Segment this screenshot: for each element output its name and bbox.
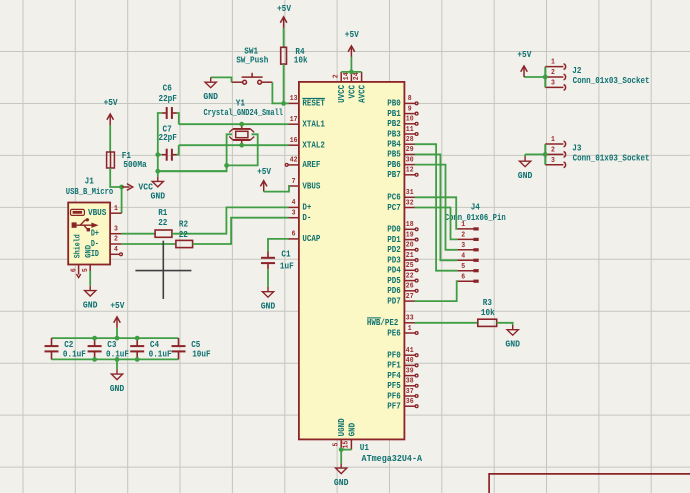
svg-text:PB7: PB7 xyxy=(387,170,401,180)
wire PB6 to J4 pin3 xyxy=(415,165,458,250)
pin 9 PB1 (U1 right) xyxy=(387,105,418,119)
pin 1 (J3) xyxy=(545,136,565,147)
power +5V (above R4) xyxy=(277,4,292,28)
pin 5 (J4) xyxy=(457,263,478,273)
svg-text:PD7: PD7 xyxy=(387,296,401,306)
junction +5V rail xyxy=(115,336,120,341)
svg-text:D+: D+ xyxy=(91,229,99,239)
wire HWB to R3 xyxy=(415,322,478,324)
svg-text:USB_B_Micro: USB_B_Micro xyxy=(66,187,114,197)
svg-text:2: 2 xyxy=(551,147,555,155)
svg-text:+5V: +5V xyxy=(517,50,532,60)
wire R1 to D+ pin xyxy=(172,207,289,233)
pin 14 VCC (U1 top) xyxy=(343,72,357,99)
svg-text:2: 2 xyxy=(551,69,555,77)
svg-text:1: 1 xyxy=(551,136,555,144)
wire +5V to F1 xyxy=(109,125,111,152)
svg-text:0.1uF: 0.1uF xyxy=(63,349,86,359)
ground (R3) xyxy=(505,325,520,350)
svg-text:PC7: PC7 xyxy=(387,203,401,213)
svg-text:PB0: PB0 xyxy=(387,99,401,109)
svg-text:GND: GND xyxy=(83,301,98,311)
svg-text:C5: C5 xyxy=(191,340,200,350)
wire J2 pins common xyxy=(544,67,546,88)
svg-text:GND: GND xyxy=(347,422,357,436)
svg-text:GND: GND xyxy=(84,245,94,258)
svg-text:Conn_01x06_Pin: Conn_01x06_Pin xyxy=(445,213,506,223)
svg-text:3: 3 xyxy=(551,157,555,165)
wire to RESET pin xyxy=(284,102,289,104)
svg-text:10: 10 xyxy=(406,116,414,124)
svg-text:SW_Push: SW_Push xyxy=(236,55,268,65)
svg-text:R3: R3 xyxy=(483,298,492,308)
svg-text:0.1uF: 0.1uF xyxy=(149,349,172,359)
wire GND rail (cap bank) xyxy=(52,358,179,360)
svg-text:17: 17 xyxy=(290,116,298,124)
ground (cap bank) xyxy=(110,369,125,394)
overline HWB xyxy=(367,317,381,319)
pin 40 PF1 (U1 right) xyxy=(387,357,418,371)
svg-text:XTAL1: XTAL1 xyxy=(302,120,325,130)
svg-text:U1: U1 xyxy=(360,443,370,453)
svg-text:1: 1 xyxy=(551,59,555,67)
svg-text:22pF: 22pF xyxy=(158,133,177,143)
pin 20 PD2 (U1 right) xyxy=(387,242,418,256)
pin 19 PD1 (U1 right) xyxy=(387,231,418,245)
svg-text:2: 2 xyxy=(461,232,465,240)
pin 5 UGND (U1 bottom) xyxy=(333,418,348,450)
wire C7 to XTAL2 xyxy=(177,145,179,155)
resistor R1 22 xyxy=(155,208,172,238)
svg-text:PD5: PD5 xyxy=(387,276,401,286)
junction GND run xyxy=(155,169,160,174)
junction Y1 top / XTAL1 xyxy=(239,122,244,127)
wire Y1 shield loop xyxy=(227,134,258,165)
pin 4 (J4) xyxy=(457,252,478,262)
svg-text:39: 39 xyxy=(406,367,414,375)
wire rail to GND xyxy=(116,359,118,369)
usb trident icon xyxy=(72,218,99,231)
graphic cross lines xyxy=(135,241,191,299)
wire R2 to D- pin xyxy=(193,218,289,244)
pin 3 (J4) xyxy=(457,242,478,252)
power VCC (arrow right) xyxy=(122,182,154,192)
wire across U1 power pins xyxy=(341,71,361,73)
ground (U1) xyxy=(334,463,349,488)
ground (J3) xyxy=(518,156,533,181)
svg-text:22pF: 22pF xyxy=(158,94,177,104)
svg-text:5: 5 xyxy=(333,442,341,446)
sheet border corner xyxy=(489,474,690,493)
wire GND to J3 xyxy=(525,153,545,155)
svg-text:PF7: PF7 xyxy=(387,402,401,412)
svg-text:25: 25 xyxy=(406,262,414,270)
svg-text:PB5: PB5 xyxy=(387,150,401,160)
svg-text:GND: GND xyxy=(203,92,218,102)
svg-text:D+: D+ xyxy=(302,203,311,213)
svg-text:5: 5 xyxy=(82,268,90,272)
wire PB5 to J4 pin4 xyxy=(415,154,458,260)
svg-text:VBUS: VBUS xyxy=(88,208,107,218)
svg-text:PD1: PD1 xyxy=(387,235,401,245)
wire +5V to VBUS pin xyxy=(264,186,289,192)
pin 33 HWB/PE2! (U1 right) xyxy=(367,315,415,329)
svg-text:32: 32 xyxy=(406,199,414,207)
svg-text:PF0: PF0 xyxy=(387,351,401,361)
svg-text:PB6: PB6 xyxy=(387,160,401,170)
svg-text:C2: C2 xyxy=(64,340,73,350)
junction +5V rail xyxy=(135,336,140,341)
capacitor C1 1uF xyxy=(261,250,294,272)
junction U1 power xyxy=(349,70,354,75)
power +5V (cap bank) xyxy=(110,301,125,328)
wire +5V rail (cap bank) xyxy=(52,337,179,339)
resistor R3 10k xyxy=(478,298,497,327)
svg-text:PF5: PF5 xyxy=(387,381,401,391)
junction +5V rail xyxy=(92,336,97,341)
pin 8 PB0 (U1 right) xyxy=(387,95,418,109)
svg-text:AREF: AREF xyxy=(302,160,320,170)
pin 16 XTAL2 (U1 left) xyxy=(288,137,325,151)
wire J1 GND xyxy=(89,271,91,286)
power +5V (above F1) xyxy=(104,98,119,125)
svg-text:D-: D- xyxy=(302,213,311,223)
svg-text:UGND: UGND xyxy=(337,418,347,436)
connector J1 USB_B_Micro body xyxy=(68,203,110,265)
svg-text:HWB/PE2: HWB/PE2 xyxy=(367,318,399,328)
pin 3 (J2) xyxy=(545,80,565,91)
wire UCAP to C1 xyxy=(268,239,289,252)
svg-text:VCC: VCC xyxy=(347,84,357,98)
pin 28 PB4 (U1 right) xyxy=(387,136,415,150)
svg-text:Conn_01x03_Socket: Conn_01x03_Socket xyxy=(573,154,650,164)
pin 27 PD7 (U1 right) xyxy=(387,293,415,307)
pin 13 RESET (U1 left) xyxy=(288,95,325,109)
crystal Y1 Crystal_GND24_Small xyxy=(203,98,283,145)
wire C1 to GND xyxy=(267,269,269,287)
svg-text:R1: R1 xyxy=(158,208,168,218)
svg-text:42: 42 xyxy=(290,157,298,165)
svg-text:2: 2 xyxy=(114,236,118,244)
capacitor C6 22pF xyxy=(158,84,177,119)
svg-text:19: 19 xyxy=(406,231,414,239)
wire GND run to crystal shield xyxy=(158,170,227,172)
svg-text:XTAL2: XTAL2 xyxy=(302,141,325,151)
svg-text:RESET: RESET xyxy=(302,99,325,109)
pin 6 UCAP (U1 left) xyxy=(288,231,321,245)
wire PC6 to J4 pin1 xyxy=(415,197,458,229)
svg-text:38: 38 xyxy=(406,378,414,386)
svg-text:12: 12 xyxy=(406,167,414,175)
svg-text:7: 7 xyxy=(292,178,296,186)
svg-text:GND: GND xyxy=(110,384,125,394)
wire to ground symbol xyxy=(157,171,159,176)
svg-text:PF1: PF1 xyxy=(387,361,401,371)
pin 1 PE6 (U1 right) xyxy=(387,325,418,339)
pin 7 VBUS (U1 left) xyxy=(288,178,321,192)
pin 42 AREF (U1 left) xyxy=(285,157,320,171)
svg-text:6: 6 xyxy=(71,268,79,272)
junction GND rail xyxy=(135,357,140,362)
wire D- to R2 xyxy=(122,243,176,245)
svg-text:UCAP: UCAP xyxy=(302,234,320,244)
wire XTAL2 xyxy=(179,144,289,146)
wire SW1 to RESET net xyxy=(272,82,283,103)
capacitor C7 22pF xyxy=(158,124,177,160)
svg-text:J4: J4 xyxy=(471,203,481,213)
pin 21 PD3 (U1 right) xyxy=(387,252,418,266)
wire +5V to J2 xyxy=(524,76,545,78)
svg-text:1: 1 xyxy=(114,205,118,213)
svg-text:PF6: PF6 xyxy=(387,391,401,401)
pin 39 PF4 (U1 right) xyxy=(387,367,418,381)
svg-text:+5V: +5V xyxy=(110,301,125,311)
pin 3 D- (U1 left) xyxy=(288,210,311,224)
svg-text:10k: 10k xyxy=(481,308,495,318)
svg-text:29: 29 xyxy=(406,146,414,154)
svg-text:+5V: +5V xyxy=(104,98,119,108)
wire shield loop to GND xyxy=(158,165,227,171)
ground (C1) xyxy=(261,287,276,312)
svg-text:15: 15 xyxy=(343,440,351,448)
microcontroller U1 ATmega32U4-A body xyxy=(299,82,405,440)
svg-text:30: 30 xyxy=(406,156,414,164)
svg-text:8: 8 xyxy=(408,95,412,103)
svg-text:GND: GND xyxy=(334,478,349,488)
svg-text:J3: J3 xyxy=(572,143,581,153)
svg-text:PD4: PD4 xyxy=(387,266,401,276)
junction RESET net xyxy=(281,101,286,106)
svg-text:16: 16 xyxy=(290,137,298,145)
junction C7 left xyxy=(155,152,160,157)
wire J3 GND drop xyxy=(524,154,526,156)
svg-text:+5V: +5V xyxy=(277,4,292,14)
pin 1 VBUS (J1) xyxy=(110,205,122,213)
svg-text:+5V: +5V xyxy=(257,167,272,177)
pin 41 PF0 (U1 right) xyxy=(387,347,418,361)
svg-text:1: 1 xyxy=(461,221,465,229)
junction J2 pin2 xyxy=(543,75,548,80)
svg-text:C3: C3 xyxy=(107,340,116,350)
svg-text:6: 6 xyxy=(461,273,465,281)
pin 12 PB7 (U1 right) xyxy=(387,167,418,181)
svg-text:3: 3 xyxy=(114,225,118,233)
svg-text:10k: 10k xyxy=(294,56,308,66)
wire C6/C7 left to GND xyxy=(158,113,162,171)
svg-text:22: 22 xyxy=(158,218,167,228)
pin 6 (J4) xyxy=(457,273,478,283)
svg-text:VBUS: VBUS xyxy=(302,181,320,191)
svg-text:VCC: VCC xyxy=(138,182,153,192)
wire F1 to VCC node xyxy=(110,168,121,187)
svg-text:GND: GND xyxy=(505,340,520,350)
wire +5V to U1 power pins xyxy=(350,57,352,72)
pin 26 PD6 (U1 right) xyxy=(387,283,418,297)
svg-text:PD3: PD3 xyxy=(387,255,401,265)
svg-text:500Ma: 500Ma xyxy=(123,160,147,170)
pin 29 PB5 (U1 right) xyxy=(387,146,415,160)
pin 2 D- (J1) xyxy=(110,236,122,244)
pin 11 PB3 (U1 right) xyxy=(387,126,418,140)
wire PD7 to J4 pin6 xyxy=(415,281,458,301)
power +5V (J2) xyxy=(517,50,532,77)
pin 37 PF6 (U1 right) xyxy=(387,388,418,402)
wire PB4 to J4 pin5 xyxy=(415,144,458,271)
svg-text:22: 22 xyxy=(406,272,414,280)
svg-text:PB3: PB3 xyxy=(387,129,401,139)
wire R4 to RESET net xyxy=(283,64,285,103)
resistor R2 22 xyxy=(176,220,193,248)
wire C6 to XTAL1 xyxy=(177,113,179,124)
svg-text:R2: R2 xyxy=(179,220,188,230)
svg-text:24: 24 xyxy=(353,72,361,80)
svg-text:PB2: PB2 xyxy=(387,119,401,129)
pin 22 PD5 (U1 right) xyxy=(387,272,418,286)
svg-text:GND: GND xyxy=(261,302,276,312)
svg-text:GND: GND xyxy=(518,171,533,181)
pin 18 PD0 (U1 right) xyxy=(387,221,418,235)
micro-usb icon xyxy=(71,209,85,215)
capacitor C4 0.1uF xyxy=(130,338,171,359)
ground (C6/C7) xyxy=(151,177,166,202)
pin 32 PC7 (U1 right) xyxy=(387,199,415,213)
svg-text:ATmega32U4-A: ATmega32U4-A xyxy=(362,454,423,464)
svg-text:UVCC: UVCC xyxy=(337,84,347,102)
wire C7 left xyxy=(158,154,162,156)
svg-text:31: 31 xyxy=(406,189,414,197)
pin 38 PF5 (U1 right) xyxy=(387,378,418,392)
svg-text:21: 21 xyxy=(406,252,414,260)
svg-text:J2: J2 xyxy=(572,66,581,76)
svg-text:1: 1 xyxy=(408,325,412,333)
ground (SW1) xyxy=(203,77,218,102)
wire +5V to rail xyxy=(116,328,118,338)
pin 24 AVCC (U1 top) xyxy=(353,72,367,103)
pin 10 PB2 (U1 right) xyxy=(387,116,418,130)
svg-text:PB1: PB1 xyxy=(387,109,401,119)
svg-text:Crystal_GND24_Small: Crystal_GND24_Small xyxy=(203,108,283,118)
svg-text:9: 9 xyxy=(408,105,412,113)
svg-text:PC6: PC6 xyxy=(387,193,401,203)
wire XTAL1 xyxy=(179,123,289,125)
svg-text:PD2: PD2 xyxy=(387,245,401,255)
svg-text:GND: GND xyxy=(151,191,166,201)
svg-text:18: 18 xyxy=(406,221,414,229)
pin 1 (J4) xyxy=(457,221,478,231)
junction J3 pin2 xyxy=(543,152,548,157)
junction Y1 bottom / XTAL2 xyxy=(239,143,244,148)
wire SW1 to GND xyxy=(211,77,232,82)
pin 36 PF7 (U1 right) xyxy=(387,398,418,412)
svg-text:C4: C4 xyxy=(150,340,160,350)
capacitor C5 10uF xyxy=(172,338,211,359)
svg-text:PB4: PB4 xyxy=(387,140,401,150)
svg-text:27: 27 xyxy=(406,293,414,301)
svg-text:4: 4 xyxy=(114,246,118,254)
wire across U1 ground pins xyxy=(341,449,351,451)
power +5V (VBUS of U1) xyxy=(257,167,272,191)
svg-text:10uF: 10uF xyxy=(192,349,210,359)
wire J3 pins common xyxy=(544,144,546,165)
svg-text:2: 2 xyxy=(333,74,341,78)
svg-text:PD6: PD6 xyxy=(387,286,401,296)
pin 4 D+ (U1 left) xyxy=(288,199,311,213)
pin 2 (J3) xyxy=(545,147,565,158)
svg-text:40: 40 xyxy=(406,357,414,365)
pin 15 GND (U1 bottom) xyxy=(343,422,358,449)
wire D+ to R1 xyxy=(122,233,156,235)
pin 2 UVCC (U1 top) xyxy=(333,72,347,103)
svg-text:3: 3 xyxy=(292,210,296,218)
svg-text:3: 3 xyxy=(551,80,555,88)
svg-text:C1: C1 xyxy=(281,250,291,260)
ground (J1) xyxy=(83,286,98,311)
pin 5 GND (J1) xyxy=(82,265,90,273)
svg-text:6: 6 xyxy=(292,231,296,239)
svg-text:13: 13 xyxy=(290,95,298,103)
wire R3 to GND xyxy=(497,323,513,325)
pin 4 ID (J1) xyxy=(110,246,122,256)
svg-text:33: 33 xyxy=(406,315,414,323)
junction VCC node xyxy=(119,185,124,190)
wire U1 to GND xyxy=(340,450,342,464)
svg-text:PD0: PD0 xyxy=(387,225,401,235)
pin 6 Shield (J1) xyxy=(71,265,81,278)
svg-text:PE6: PE6 xyxy=(387,328,401,338)
svg-text:1uF: 1uF xyxy=(280,261,294,271)
pin 25 PD4 (U1 right) xyxy=(387,262,418,276)
pin 3 D+ (J1) xyxy=(110,225,122,233)
svg-text:AVCC: AVCC xyxy=(358,84,368,102)
pin 30 PB6 (U1 right) xyxy=(387,156,415,170)
pin 31 PC6 (U1 right) xyxy=(387,189,415,203)
svg-text:3: 3 xyxy=(461,242,465,250)
svg-text:5: 5 xyxy=(461,263,465,271)
junction shield loop xyxy=(224,163,229,168)
svg-text:Shield: Shield xyxy=(72,234,82,258)
wire +5V to R4 xyxy=(283,28,285,47)
svg-text:26: 26 xyxy=(406,283,414,291)
pin 2 (J4) xyxy=(457,232,478,242)
resistor R4 xyxy=(281,47,308,66)
pin 17 XTAL1 (U1 left) xyxy=(288,116,325,130)
pin 2 (J2) xyxy=(545,69,565,80)
svg-text:41: 41 xyxy=(406,347,414,355)
junction U1 ground xyxy=(339,447,344,452)
svg-text:J1: J1 xyxy=(85,177,95,187)
overline RESET xyxy=(302,97,325,99)
svg-text:36: 36 xyxy=(406,398,414,406)
svg-text:28: 28 xyxy=(406,136,414,144)
wire PC7 to J4 pin2 xyxy=(415,208,458,240)
svg-text:PF4: PF4 xyxy=(387,371,401,381)
svg-text:22: 22 xyxy=(179,230,188,240)
svg-text:C6: C6 xyxy=(163,84,172,94)
svg-text:37: 37 xyxy=(406,388,414,396)
switch SW1 SW_Push xyxy=(232,47,273,85)
svg-text:11: 11 xyxy=(406,126,414,134)
capacitor C2 0.1uF xyxy=(45,338,86,359)
svg-text:Y1: Y1 xyxy=(236,98,246,108)
svg-text:+5V: +5V xyxy=(345,30,360,40)
svg-text:Conn_01x03_Socket: Conn_01x03_Socket xyxy=(573,76,650,86)
capacitor C3 0.1uF xyxy=(88,338,129,359)
svg-text:4: 4 xyxy=(461,252,465,260)
fuse F1 500Ma xyxy=(107,151,148,170)
svg-text:20: 20 xyxy=(406,242,414,250)
power +5V (U1 top) xyxy=(345,30,360,57)
svg-text:4: 4 xyxy=(292,199,296,207)
